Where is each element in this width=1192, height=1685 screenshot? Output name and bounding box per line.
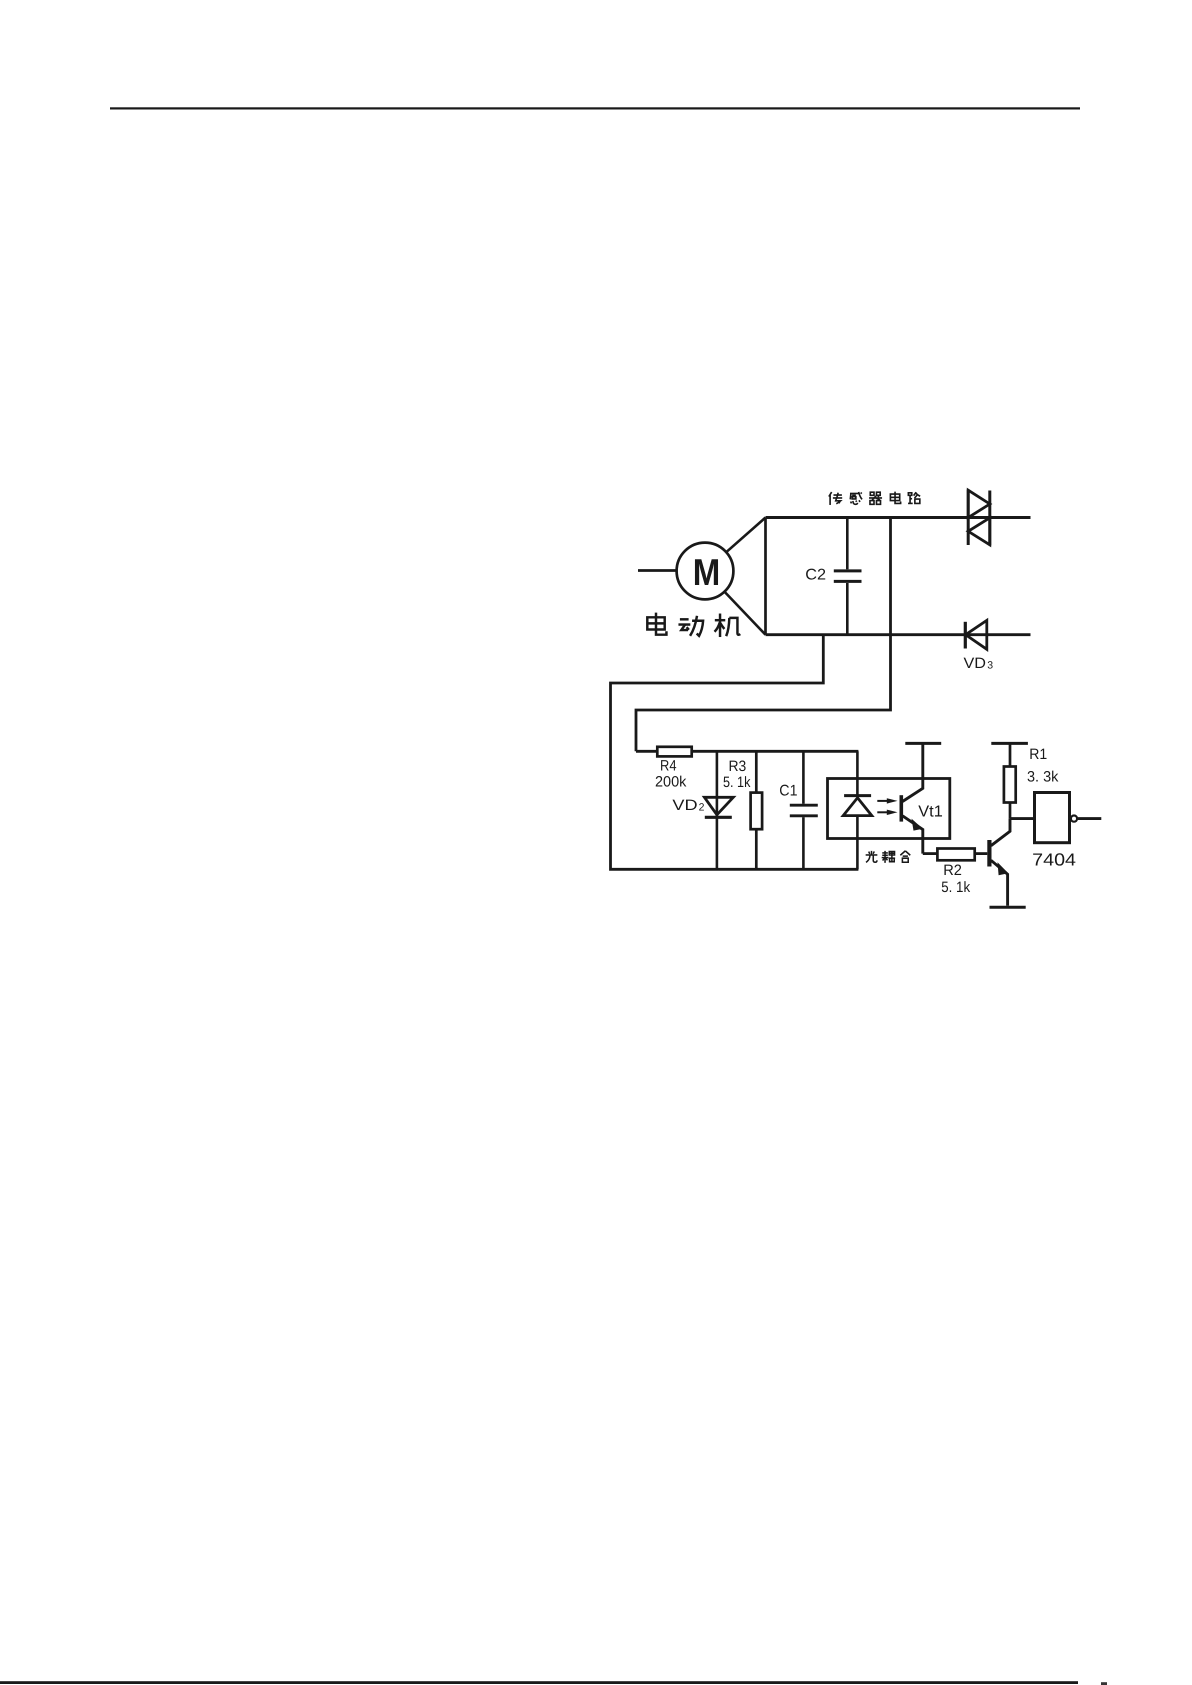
wire: right bus drop + inner L to R4 — [636, 518, 891, 752]
capacitor C1 plates — [790, 805, 818, 816]
capacitor C1 bottom lead — [802, 817, 805, 869]
svg-text:200k: 200k — [655, 773, 687, 790]
resistor R2 — [937, 849, 974, 861]
svg-text:C1: C1 — [779, 783, 797, 800]
svg-text:R2: R2 — [943, 862, 962, 879]
wire: top bus — [766, 516, 1031, 519]
wire: motor right vertical bus — [764, 518, 767, 635]
resistor R1 — [1004, 767, 1016, 803]
diode VD2 triangle — [704, 797, 733, 815]
svg-text:VD: VD — [964, 655, 987, 672]
page bottom rule — [0, 1681, 1078, 1684]
diode VD2 cathode bar — [705, 816, 732, 819]
wire: bottom bus — [766, 633, 1031, 636]
label 传感器电路 (sensor circuit) — [829, 492, 920, 505]
transistor Q1 base bar — [987, 840, 991, 867]
opto Vt1 emitter arrowhead — [912, 819, 923, 831]
opto light arrow lower — [877, 811, 888, 813]
capacitor C2 plates — [834, 571, 862, 582]
transistor Q1 emitter — [991, 860, 1008, 906]
capacitor C2 top lead — [846, 518, 849, 570]
wire: R2 to Q1 base — [975, 852, 988, 855]
wire: lower top rail — [636, 750, 858, 753]
svg-text:R1: R1 — [1029, 746, 1047, 763]
capacitor C1 top lead — [802, 751, 805, 804]
triac VS left bar — [967, 490, 970, 546]
opto LED anode lead from top rail — [856, 751, 859, 795]
triac VS top triangle — [968, 490, 990, 517]
label 电动机 (electric motor) — [647, 613, 740, 637]
opto Vt1 collector power T-bar — [905, 742, 941, 745]
svg-text:R4: R4 — [660, 758, 677, 775]
diode VD3 cathode bar — [964, 622, 967, 649]
svg-text:R3: R3 — [729, 758, 747, 775]
diode VD2 wire through — [716, 797, 719, 869]
diode VD3 triangle — [966, 620, 987, 649]
opto LED triangle — [843, 798, 872, 816]
bottom rule tick — [1101, 1682, 1107, 1685]
wire: motor cone top diagonal — [726, 518, 765, 553]
wire: motor left stub — [638, 569, 677, 572]
wire: node to 7404 input — [1010, 817, 1035, 820]
transistor Q1 collector — [991, 819, 1010, 846]
label 光耦合 (optocoupler) — [866, 851, 911, 863]
transistor Q1 emitter arrowhead — [998, 862, 1009, 875]
wire: opto emitter to R2 — [923, 852, 938, 855]
ground bar under Q1 — [990, 906, 1026, 909]
inverter 7404 output bubble — [1071, 816, 1077, 822]
opto Vt1 collector — [903, 743, 923, 801]
svg-text:5. 1k: 5. 1k — [941, 879, 970, 896]
svg-text:3: 3 — [987, 659, 993, 671]
resistor R3 leads — [755, 751, 758, 869]
motor M1 circle — [677, 543, 734, 600]
svg-text:3. 3k: 3. 3k — [1027, 768, 1059, 785]
resistor R3 — [751, 793, 763, 830]
svg-text:C2: C2 — [805, 566, 826, 583]
svg-text:5. 1k: 5. 1k — [723, 774, 751, 791]
svg-text:2: 2 — [699, 802, 705, 814]
R1 lead — [1009, 743, 1012, 818]
opto LED cathode bar — [844, 794, 871, 797]
triac VS right bar — [988, 491, 991, 546]
resistor R4 — [657, 747, 691, 757]
svg-text:Vt1: Vt1 — [918, 803, 943, 820]
page top rule — [110, 107, 1080, 109]
wire: 7404 output — [1078, 817, 1102, 820]
wire: motor cone bottom diagonal — [724, 592, 765, 635]
capacitor C2 bottom lead — [846, 583, 849, 635]
opto light arrow upper — [877, 800, 888, 802]
svg-text:7404: 7404 — [1032, 849, 1076, 869]
wire: drop from bottom bus + left rail + lower bottom rail — [611, 635, 859, 870]
opto phototransistor Vt1 base bar — [900, 795, 904, 821]
triac VS bottom triangle — [968, 518, 990, 545]
opto LED lead through to bottom rail — [856, 816, 859, 870]
optocoupler U box — [828, 779, 950, 839]
opto Vt1 emitter — [903, 816, 923, 854]
R1 power T-bar — [991, 742, 1028, 745]
diode VD2 anode lead — [716, 751, 719, 797]
inverter 7404 box — [1035, 793, 1070, 843]
svg-text:M: M — [693, 551, 721, 593]
svg-text:VD: VD — [672, 797, 697, 814]
